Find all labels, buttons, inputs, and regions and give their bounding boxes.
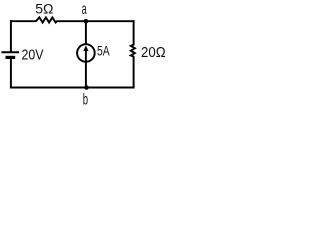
svg-text:a: a xyxy=(82,1,87,18)
svg-text:20V: 20V xyxy=(22,47,44,63)
svg-text:5Ω: 5Ω xyxy=(35,1,53,17)
svg-text:b: b xyxy=(83,92,88,109)
svg-text:20Ω: 20Ω xyxy=(141,45,166,61)
svg-text:5A: 5A xyxy=(97,43,110,59)
